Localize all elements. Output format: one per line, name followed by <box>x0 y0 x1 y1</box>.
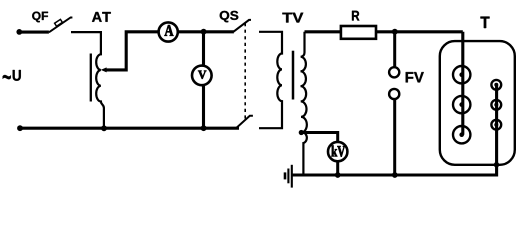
wire T left column <box>461 32 464 135</box>
transformer TV secondary winding <box>301 32 307 175</box>
switch QS top blade <box>234 20 252 32</box>
ground bus wire and T right column <box>292 85 497 175</box>
label QF <box>32 12 48 23</box>
bushing T right 3 <box>491 120 501 130</box>
label QS <box>220 11 239 22</box>
node junction A/V <box>201 29 207 35</box>
ground symbol <box>291 165 293 188</box>
spark gap FV sphere 1 <box>389 67 399 77</box>
label T <box>481 17 490 28</box>
node AT bottom junction <box>101 125 107 131</box>
voltmeter V <box>192 66 212 86</box>
label FV <box>406 72 424 82</box>
spark gap FV sphere 2 <box>389 89 399 99</box>
label AT <box>92 12 111 22</box>
wire TV secondary top to R <box>305 30 341 33</box>
autotransformer AT core bar <box>90 54 92 102</box>
node FV ground <box>392 172 398 178</box>
switch QS link dashed <box>244 23 246 120</box>
bushing T right 2 <box>491 100 501 110</box>
wire top-left to QF <box>19 31 49 34</box>
bushing T right 1 <box>491 80 501 90</box>
terminal dot bottom-left <box>17 125 23 131</box>
wire tap to kV meter and down to ground bus <box>301 133 337 176</box>
terminal dot top-left <box>16 29 22 35</box>
resistor R <box>352 11 359 21</box>
label TV <box>282 13 303 23</box>
wire bottom bus <box>20 127 239 130</box>
bushing T left 3 <box>453 126 470 143</box>
node junction V bottom <box>201 125 207 131</box>
node kV tap <box>299 130 304 135</box>
node FV junction <box>392 29 398 35</box>
node kV ground <box>335 172 341 178</box>
bushing T left 1 <box>453 66 470 83</box>
transformer TV core <box>292 51 295 100</box>
breaker QF blade <box>49 18 73 33</box>
node T bottom entry <box>494 162 499 167</box>
breaker QF rectangle <box>55 19 63 26</box>
wire FV bottom <box>393 99 396 175</box>
wire QS to TV and transformer TV primary winding <box>259 32 282 128</box>
kilovoltmeter kV <box>328 142 347 161</box>
autotransformer AT wiper arrow <box>101 67 107 72</box>
wire FV top <box>393 32 396 67</box>
wire R to T <box>376 30 463 33</box>
bushing T left 2 <box>453 96 470 113</box>
switch QS bottom blade <box>236 116 253 129</box>
ammeter A <box>159 22 178 41</box>
test object T enclosure <box>440 41 515 165</box>
wire V branch <box>202 32 205 128</box>
label ~U <box>3 75 11 79</box>
wire QF to AT and autotransformer AT winding <box>71 32 104 128</box>
